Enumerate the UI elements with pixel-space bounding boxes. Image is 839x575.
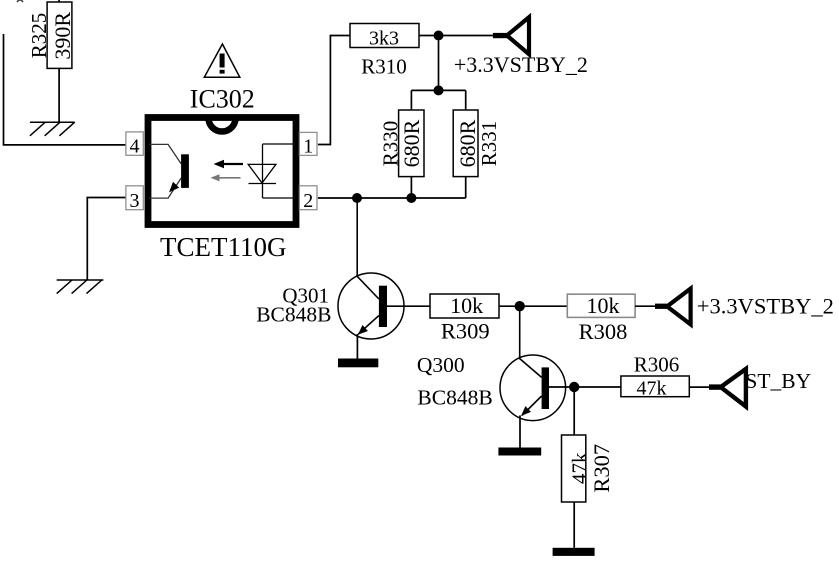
op-amp U1: optocoupler IC302 body bbox=[148, 118, 296, 225]
pin 4 bbox=[126, 132, 143, 158]
notch bbox=[209, 118, 236, 132]
wire R309 to R308 bbox=[499, 305, 567, 307]
resistor R308 bbox=[567, 293, 635, 344]
svg-text:TCET110G: TCET110G bbox=[160, 232, 286, 262]
svg-text:R306: R306 bbox=[634, 353, 680, 377]
svg-text:Q300: Q300 bbox=[417, 353, 465, 377]
warning symbol bbox=[204, 44, 240, 77]
wire pin 1 up to R310 bbox=[318, 36, 350, 145]
svg-text:ST_BY: ST_BY bbox=[745, 369, 811, 393]
wire junction down to Q300 bbox=[520, 306, 542, 377]
ground (bar) Q301 bbox=[338, 359, 378, 368]
svg-text:1: 1 bbox=[303, 136, 313, 158]
resistor R310 bbox=[350, 24, 419, 79]
svg-text:IC302: IC302 bbox=[190, 84, 255, 113]
svg-text:R331: R331 bbox=[477, 121, 501, 167]
transistor Q300 bbox=[417, 353, 566, 421]
svg-text:390R: 390R bbox=[50, 12, 75, 60]
wire Q300 emitter to ground bbox=[519, 415, 521, 447]
wire R307 to ground bbox=[573, 502, 575, 548]
node junction bbox=[434, 31, 444, 41]
wire Q301 emitter to ground bbox=[356, 334, 358, 359]
svg-text:R325: R325 bbox=[27, 13, 51, 59]
wire junction down to R307 bbox=[573, 387, 575, 435]
svg-text:+3.3VSTBY_2: +3.3VSTBY_2 bbox=[454, 52, 588, 77]
resistor R330 bbox=[379, 110, 425, 177]
resistor R325 bbox=[27, 0, 75, 68]
resistor R307 bbox=[562, 435, 615, 502]
node junction bbox=[515, 301, 525, 311]
svg-text:3: 3 bbox=[130, 190, 140, 212]
transistor Q301 bbox=[256, 273, 404, 339]
ground (bar) Q300 bbox=[498, 448, 541, 456]
wire junction down to R330/R331 pair bbox=[438, 36, 440, 91]
svg-text:47k: 47k bbox=[637, 378, 667, 400]
wire Q301 base to R309 bbox=[386, 305, 430, 307]
power flag +3.3VSTBY_2 mid bbox=[655, 289, 834, 325]
wire Q300 base to R306 bbox=[549, 386, 621, 388]
wire R310 to flag bbox=[419, 35, 493, 37]
svg-text:3k3: 3k3 bbox=[369, 28, 399, 50]
wire left vertical into pin 4 bbox=[4, 34, 126, 145]
ground (bar) R307 bbox=[553, 548, 595, 556]
power flag +3.3VSTBY_2 top bbox=[454, 17, 588, 77]
pin 1 bbox=[299, 132, 317, 157]
wire R325 to ground bbox=[58, 68, 60, 122]
svg-text:BC848B: BC848B bbox=[256, 303, 331, 327]
resistor R306 bbox=[621, 353, 689, 400]
svg-text:2: 2 bbox=[303, 190, 313, 212]
LED inside IC302 bbox=[248, 144, 296, 198]
wire rail down to Q301 collector bbox=[357, 198, 379, 299]
svg-text:R309: R309 bbox=[441, 319, 490, 344]
svg-text:R308: R308 bbox=[579, 319, 628, 344]
ground chassis pin 3 bbox=[57, 280, 104, 294]
ground chassis under R325 bbox=[30, 122, 75, 136]
wire R308 to flag bbox=[635, 305, 655, 307]
resistor R309 bbox=[430, 293, 499, 343]
pin 2 bbox=[299, 186, 317, 212]
svg-text:10k: 10k bbox=[450, 293, 483, 318]
power flag ST_BY bbox=[709, 369, 811, 407]
svg-text:4: 4 bbox=[130, 136, 140, 158]
stray mark top-left corner bbox=[17, 0, 23, 2]
svg-text:680R: 680R bbox=[399, 119, 424, 167]
phototransistor inside IC302 bbox=[150, 144, 189, 198]
node junctions on rail bbox=[352, 193, 362, 203]
resistor R331 bbox=[453, 110, 501, 177]
light arrows bbox=[211, 160, 244, 182]
wire R306 to flag bbox=[689, 386, 709, 388]
svg-text:R310: R310 bbox=[361, 55, 407, 79]
svg-text:R307: R307 bbox=[589, 444, 614, 493]
node junction bbox=[569, 382, 579, 392]
svg-text:BC848B: BC848B bbox=[417, 385, 492, 409]
pin 3 bbox=[126, 186, 143, 212]
svg-text:10k: 10k bbox=[587, 293, 620, 318]
wire pin 3 to ground bbox=[87, 198, 126, 281]
svg-text:+3.3VSTBY_2: +3.3VSTBY_2 bbox=[697, 294, 834, 319]
svg-text:47k: 47k bbox=[568, 452, 592, 484]
wires bottoms of R330/R331 to pin2 rail bbox=[410, 177, 412, 198]
